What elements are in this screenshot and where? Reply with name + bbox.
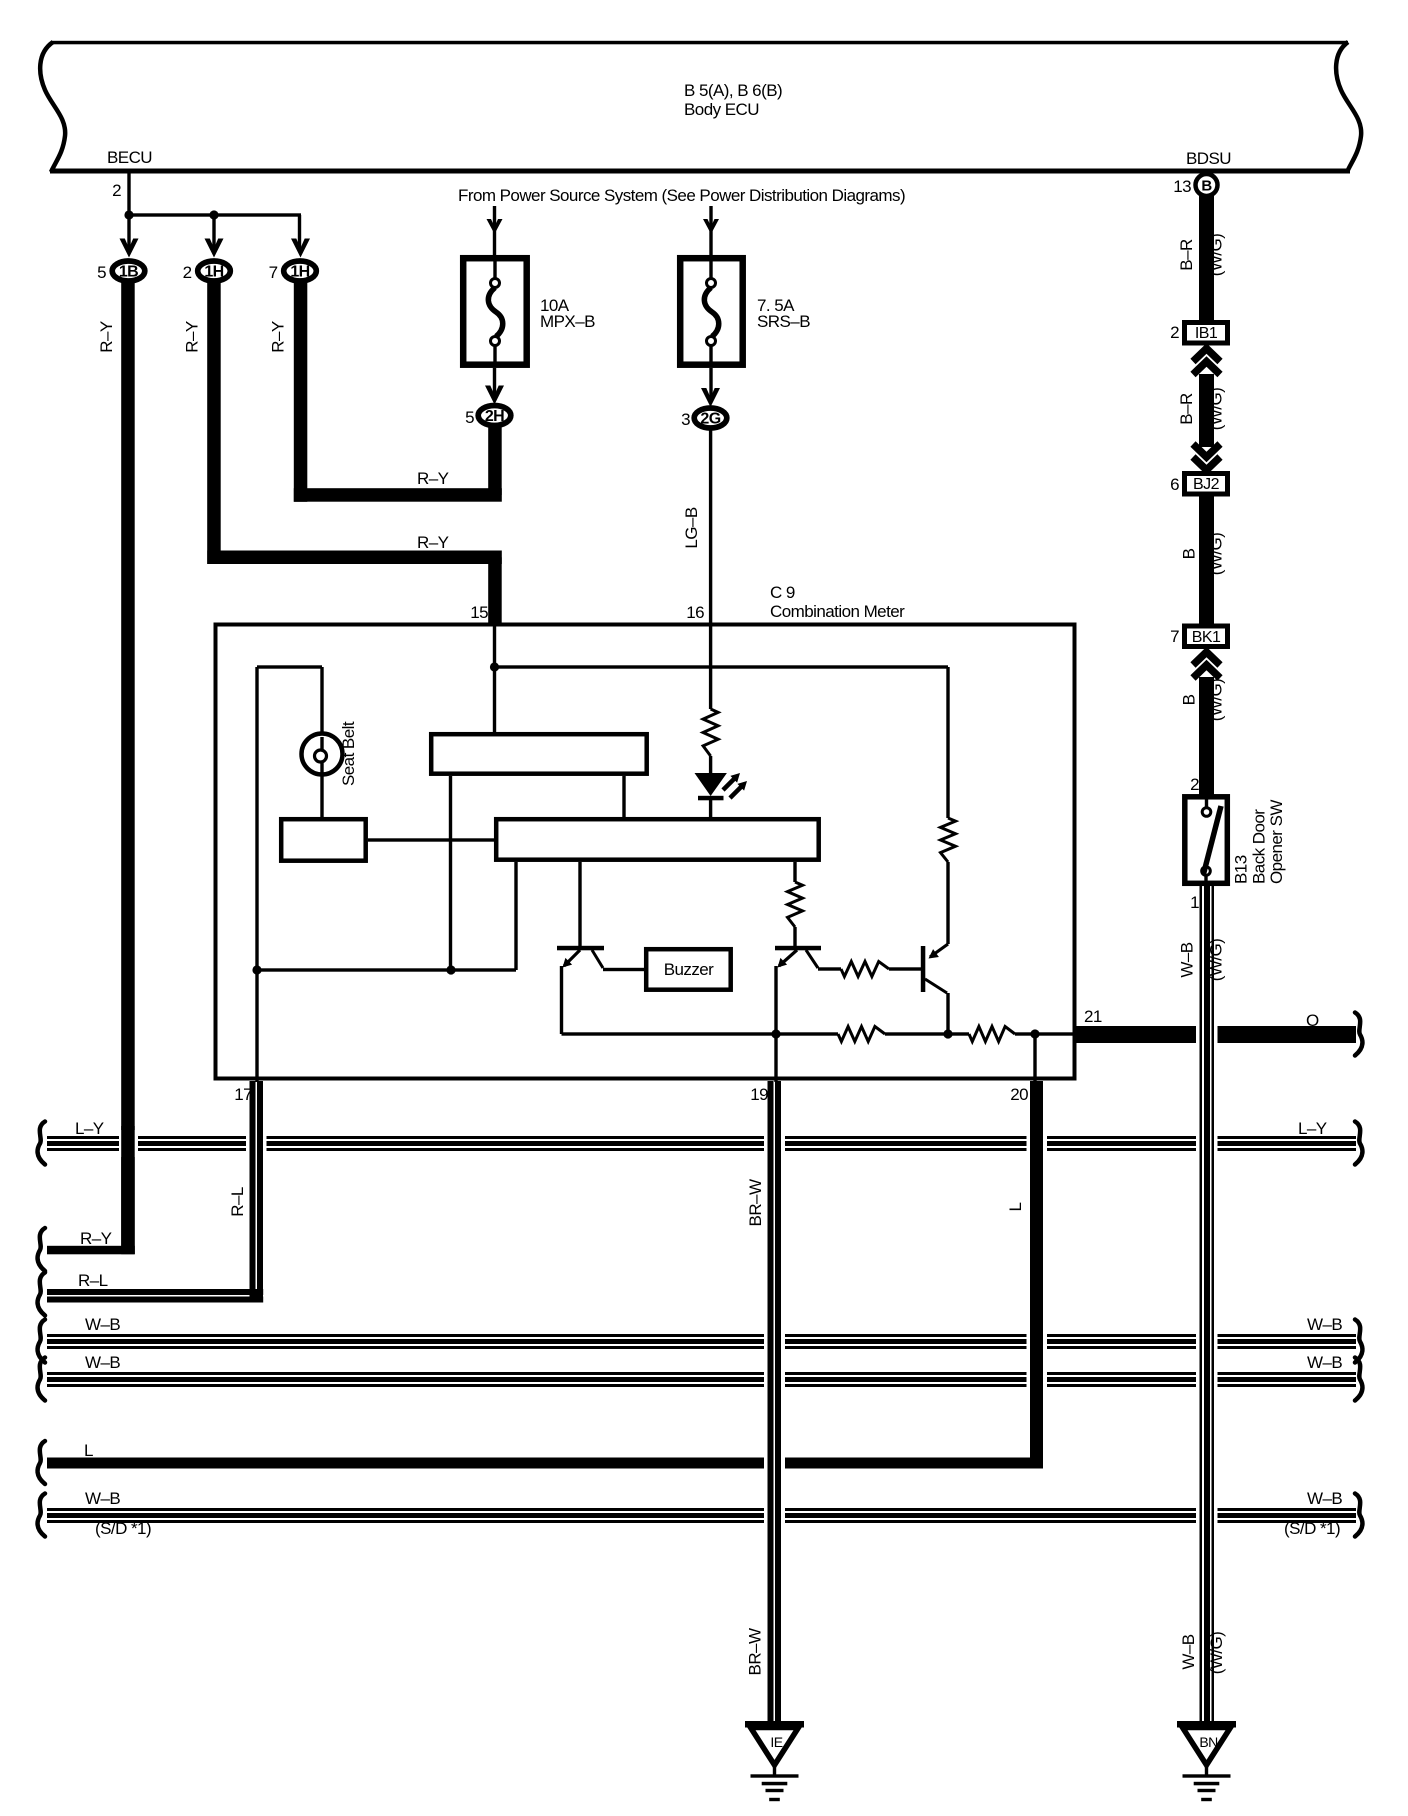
svg-text:W–B: W–B bbox=[1178, 942, 1197, 977]
svg-text:L: L bbox=[1006, 1202, 1025, 1211]
svg-text:B 5(A), B 6(B): B 5(A), B 6(B) bbox=[684, 81, 782, 100]
svg-text:R–Y: R–Y bbox=[97, 321, 116, 353]
svg-text:(S/D *1): (S/D *1) bbox=[1284, 1519, 1340, 1538]
svg-text:(W/G): (W/G) bbox=[1207, 939, 1226, 982]
svg-text:W–B: W–B bbox=[1307, 1489, 1342, 1508]
svg-text:O: O bbox=[1306, 1011, 1319, 1030]
svg-text:R–Y: R–Y bbox=[269, 321, 288, 353]
svg-text:W–B: W–B bbox=[85, 1489, 120, 1508]
svg-text:R–L: R–L bbox=[78, 1271, 108, 1290]
svg-text:BR–W: BR–W bbox=[746, 1179, 765, 1226]
svg-text:Combination Meter: Combination Meter bbox=[770, 602, 905, 621]
svg-text:Opener SW: Opener SW bbox=[1267, 800, 1286, 884]
svg-text:1B: 1B bbox=[119, 264, 138, 281]
svg-text:(W/G): (W/G) bbox=[1207, 234, 1226, 277]
svg-text:5: 5 bbox=[97, 263, 106, 282]
svg-text:L–Y: L–Y bbox=[75, 1119, 104, 1138]
svg-text:BJ2: BJ2 bbox=[1193, 476, 1220, 493]
svg-text:Back Door: Back Door bbox=[1250, 809, 1269, 884]
svg-text:BDSU: BDSU bbox=[1186, 149, 1231, 168]
svg-text:13: 13 bbox=[1173, 177, 1191, 196]
svg-text:(W/G): (W/G) bbox=[1207, 1632, 1226, 1675]
svg-text:16: 16 bbox=[686, 603, 704, 622]
svg-text:5: 5 bbox=[465, 408, 474, 427]
svg-text:17: 17 bbox=[234, 1085, 252, 1104]
svg-text:L: L bbox=[84, 1441, 93, 1460]
svg-text:SRS–B: SRS–B bbox=[757, 312, 810, 331]
svg-text:B: B bbox=[1180, 694, 1199, 705]
svg-text:W–B: W–B bbox=[1179, 1634, 1198, 1669]
svg-text:1H: 1H bbox=[204, 264, 223, 281]
svg-text:IE: IE bbox=[770, 1734, 782, 1750]
svg-text:(W/G): (W/G) bbox=[1207, 679, 1226, 722]
svg-text:B–R: B–R bbox=[1177, 393, 1196, 425]
svg-text:(S/D *1): (S/D *1) bbox=[95, 1519, 151, 1538]
svg-text:C 9: C 9 bbox=[770, 583, 795, 602]
svg-text:B: B bbox=[1201, 178, 1212, 195]
svg-text:1: 1 bbox=[1190, 893, 1199, 912]
svg-text:W–B: W–B bbox=[85, 1353, 120, 1372]
svg-text:From Power Source System (See: From Power Source System (See Power Dist… bbox=[458, 186, 905, 205]
svg-text:2H: 2H bbox=[485, 408, 504, 425]
svg-text:20: 20 bbox=[1010, 1085, 1028, 1104]
svg-text:BR–W: BR–W bbox=[746, 1628, 765, 1675]
svg-text:15: 15 bbox=[470, 603, 488, 622]
svg-text:BN: BN bbox=[1199, 1734, 1217, 1750]
svg-text:21: 21 bbox=[1084, 1007, 1102, 1026]
svg-text:W–B: W–B bbox=[85, 1315, 120, 1334]
svg-text:LG–B: LG–B bbox=[682, 507, 701, 548]
svg-text:R–Y: R–Y bbox=[183, 321, 202, 353]
svg-text:W–B: W–B bbox=[1307, 1353, 1342, 1372]
svg-text:2G: 2G bbox=[700, 411, 720, 428]
svg-text:W–B: W–B bbox=[1307, 1315, 1342, 1334]
svg-text:IB1: IB1 bbox=[1195, 325, 1218, 342]
svg-text:3: 3 bbox=[681, 410, 690, 429]
svg-text:B: B bbox=[1180, 548, 1199, 559]
svg-text:R–Y: R–Y bbox=[417, 533, 449, 552]
svg-text:2: 2 bbox=[1190, 775, 1199, 794]
svg-text:(W/G): (W/G) bbox=[1207, 533, 1226, 576]
svg-text:19: 19 bbox=[750, 1085, 768, 1104]
svg-text:(W/G): (W/G) bbox=[1207, 388, 1226, 431]
svg-text:7: 7 bbox=[269, 263, 278, 282]
svg-text:L–Y: L–Y bbox=[1298, 1119, 1327, 1138]
svg-text:R–Y: R–Y bbox=[80, 1229, 112, 1248]
svg-text:2: 2 bbox=[112, 181, 121, 200]
svg-text:6: 6 bbox=[1170, 475, 1179, 494]
svg-text:Seat Belt: Seat Belt bbox=[339, 721, 358, 786]
svg-text:MPX–B: MPX–B bbox=[540, 312, 595, 331]
svg-text:B13: B13 bbox=[1232, 855, 1251, 884]
svg-text:7: 7 bbox=[1170, 627, 1179, 646]
svg-text:Body ECU: Body ECU bbox=[684, 100, 759, 119]
svg-text:B–R: B–R bbox=[1177, 239, 1196, 271]
svg-text:R–L: R–L bbox=[228, 1187, 247, 1217]
svg-text:R–Y: R–Y bbox=[417, 469, 449, 488]
svg-text:2: 2 bbox=[183, 263, 192, 282]
svg-text:BECU: BECU bbox=[107, 148, 152, 167]
svg-text:BK1: BK1 bbox=[1192, 629, 1221, 646]
svg-text:1H: 1H bbox=[290, 264, 309, 281]
svg-text:Buzzer: Buzzer bbox=[664, 960, 714, 979]
svg-text:2: 2 bbox=[1170, 323, 1179, 342]
